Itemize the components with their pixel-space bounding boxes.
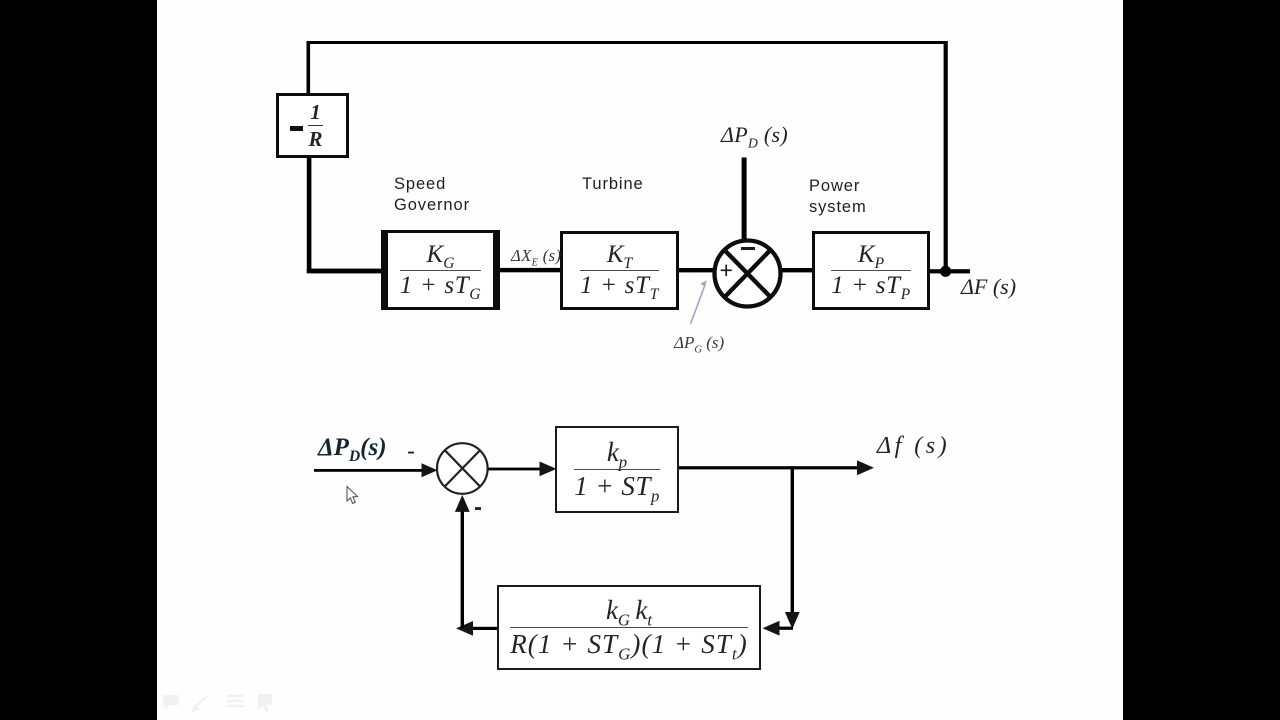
wire: -1/R output vertical down xyxy=(307,156,312,273)
mouse cursor xyxy=(347,487,358,504)
sign: minus at top of S1 xyxy=(741,247,755,250)
wire: S2 to kp block with arrow xyxy=(488,468,540,471)
block G4 kp xyxy=(555,426,679,513)
X cross of summing junction S2 xyxy=(445,450,481,486)
label: Speed Governor xyxy=(394,174,470,216)
block -1/R xyxy=(276,93,349,158)
wire: left feedback vertical into -1/R xyxy=(307,41,311,95)
label: ΔX_E(s) xyxy=(511,246,561,266)
label: ΔF(s) xyxy=(961,274,1016,300)
label: Power system xyxy=(809,176,867,218)
summing junction S1 (top) xyxy=(715,241,781,307)
annotation arrow (blue) to summing junction xyxy=(691,284,706,325)
wire: governor to turbine xyxy=(498,268,564,272)
X cross of summing junction S1 xyxy=(724,250,771,298)
wire: feedback block output left xyxy=(470,627,498,630)
wire: branch vertical down xyxy=(791,466,794,614)
label: ΔP_G(s) xyxy=(674,333,724,353)
wire: top feedback horizontal xyxy=(307,41,948,44)
node: output junction dot xyxy=(940,266,951,277)
block G1 speed governor xyxy=(381,230,500,310)
wire: branch into feedback block with arrow xyxy=(775,627,793,630)
summing junction S2 (bottom) xyxy=(437,443,488,494)
block G3 power system xyxy=(812,231,930,310)
wire: output feedback vertical riser xyxy=(944,41,948,272)
block G2 turbine xyxy=(560,231,679,310)
sign: minus before S2 xyxy=(407,438,415,466)
right letterbox bar xyxy=(1123,0,1280,720)
wire: power system output to node xyxy=(927,269,970,273)
label: ΔP_D(s) bottom xyxy=(318,434,387,462)
wire: input with arrow into summing junction S2 xyxy=(314,469,422,472)
wire: horizontal into speed governor block xyxy=(307,269,385,274)
wire: summing junction to power system block xyxy=(779,268,815,272)
sign: minus below S2 xyxy=(474,494,482,522)
wire: feedback vertical up into S2 with arrow xyxy=(461,505,464,628)
wire: kp block output to Δf(s) with arrow xyxy=(679,466,861,469)
label: Δf(s) output xyxy=(877,433,950,460)
wire: turbine to summing junction xyxy=(677,268,715,272)
sign: plus at left of S1 xyxy=(720,257,733,284)
label: Turbine xyxy=(582,174,644,195)
label: ΔP_D(s) top xyxy=(721,122,788,148)
wire: disturbance input drop into summing junction xyxy=(742,158,747,243)
block G5 feedback xyxy=(497,585,761,670)
left letterbox bar xyxy=(0,0,157,720)
